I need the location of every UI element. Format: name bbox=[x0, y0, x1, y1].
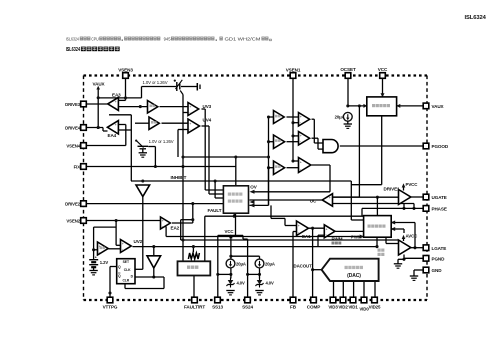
svg-text:945: 945 bbox=[164, 37, 172, 42]
svg-text:VID3: VID3 bbox=[328, 304, 338, 309]
svg-text:GND: GND bbox=[432, 268, 443, 273]
svg-text:+: + bbox=[115, 100, 117, 104]
svg-text:FAULT/RT: FAULT/RT bbox=[184, 305, 205, 310]
svg-text:4.0V: 4.0V bbox=[266, 281, 275, 286]
svg-text:EA3: EA3 bbox=[112, 92, 121, 97]
svg-text:PVCC: PVCC bbox=[406, 182, 419, 187]
svg-text:DRIVE3: DRIVE3 bbox=[65, 102, 81, 107]
svg-text:(DAC): (DAC) bbox=[347, 273, 361, 279]
svg-text:DACOUT: DACOUT bbox=[294, 264, 313, 269]
svg-text:OC: OC bbox=[310, 199, 317, 204]
svg-text:VTTPG: VTTPG bbox=[103, 305, 118, 310]
svg-text:VID2: VID2 bbox=[338, 304, 348, 309]
svg-text:INHIBIT: INHIBIT bbox=[171, 175, 187, 180]
svg-text:PHASE: PHASE bbox=[432, 207, 447, 212]
svg-text:4.0V: 4.0V bbox=[237, 281, 246, 286]
svg-text:LGATE: LGATE bbox=[432, 246, 447, 251]
svg-text:VSEN3: VSEN3 bbox=[118, 68, 133, 73]
svg-text:FIX: FIX bbox=[74, 165, 81, 170]
svg-text:FB: FB bbox=[290, 305, 297, 310]
svg-text:VCC: VCC bbox=[225, 229, 235, 234]
svg-text:VAUX: VAUX bbox=[93, 82, 106, 87]
svg-text:+: + bbox=[95, 256, 97, 260]
svg-text:+: + bbox=[189, 105, 191, 109]
svg-text:SS13: SS13 bbox=[212, 305, 223, 310]
svg-text:+: + bbox=[300, 161, 302, 165]
svg-text:UV2: UV2 bbox=[134, 239, 143, 244]
svg-text:VID25: VID25 bbox=[369, 304, 381, 309]
svg-text:ISL6324: ISL6324 bbox=[66, 47, 81, 53]
svg-text:PWM: PWM bbox=[351, 235, 362, 240]
svg-text:PWM: PWM bbox=[332, 237, 343, 242]
svg-text:+: + bbox=[300, 134, 302, 138]
svg-text:1.2V: 1.2V bbox=[100, 260, 109, 265]
svg-text:AVCC: AVCC bbox=[406, 234, 419, 239]
svg-text:20μA: 20μA bbox=[335, 115, 345, 120]
svg-text:CLR: CLR bbox=[122, 279, 129, 283]
svg-text:OV: OV bbox=[250, 184, 257, 189]
svg-text:CPU: CPU bbox=[91, 37, 99, 42]
svg-text:PGOOD: PGOOD bbox=[432, 144, 449, 149]
svg-text:EA1: EA1 bbox=[302, 234, 311, 239]
svg-text:+: + bbox=[189, 122, 191, 126]
svg-text:OCSET: OCSET bbox=[340, 67, 356, 72]
svg-text:1.0V or 1.26V: 1.0V or 1.26V bbox=[149, 139, 174, 144]
svg-text:VID1: VID1 bbox=[348, 304, 358, 309]
svg-text:+: + bbox=[300, 115, 302, 119]
svg-text:+: + bbox=[162, 219, 164, 223]
svg-text:VSEN2: VSEN2 bbox=[66, 219, 80, 224]
svg-text:EA4: EA4 bbox=[108, 133, 117, 138]
svg-text:EA2: EA2 bbox=[171, 226, 180, 231]
svg-text:VSEN1: VSEN1 bbox=[286, 68, 301, 73]
svg-text:20μA: 20μA bbox=[265, 262, 275, 267]
svg-text:SS24: SS24 bbox=[242, 305, 253, 310]
svg-text:UGATE: UGATE bbox=[432, 195, 447, 200]
svg-text:+: + bbox=[115, 123, 117, 127]
svg-text:ISL6324: ISL6324 bbox=[66, 37, 80, 42]
svg-text:ISL6324: ISL6324 bbox=[465, 15, 487, 21]
svg-text:PGND: PGND bbox=[432, 257, 446, 262]
svg-text:SET: SET bbox=[123, 260, 130, 264]
svg-text:+: + bbox=[122, 242, 124, 246]
svg-text:20μA: 20μA bbox=[236, 262, 246, 267]
svg-text:COMP: COMP bbox=[307, 305, 320, 310]
svg-text:1.0V or 1.26V: 1.0V or 1.26V bbox=[143, 80, 168, 85]
svg-text:VCC: VCC bbox=[378, 67, 388, 72]
svg-text:+: + bbox=[326, 227, 328, 231]
svg-text:UV3: UV3 bbox=[203, 104, 212, 109]
svg-text:GD1 WH2/CM: GD1 WH2/CM bbox=[225, 37, 261, 42]
svg-text:FAULT: FAULT bbox=[208, 208, 222, 213]
svg-text:VAUX: VAUX bbox=[432, 104, 445, 109]
svg-text:+: + bbox=[298, 224, 300, 228]
svg-text:CLK: CLK bbox=[124, 268, 131, 272]
svg-text:DRIVE2: DRIVE2 bbox=[65, 202, 81, 207]
svg-text:+: + bbox=[329, 196, 331, 200]
svg-text:UV4: UV4 bbox=[203, 118, 212, 123]
svg-text:VSEN4: VSEN4 bbox=[66, 144, 80, 149]
svg-text:DRIVE4: DRIVE4 bbox=[65, 126, 81, 131]
svg-text:DRIVE1: DRIVE1 bbox=[384, 187, 401, 192]
